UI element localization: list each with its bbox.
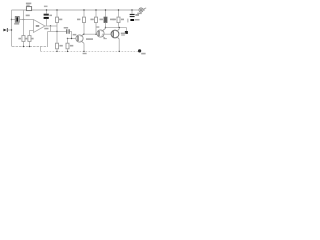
node R2 ground — [23, 46, 24, 47]
wire R3 to inverting input — [30, 31, 34, 36]
node C6 rail — [131, 9, 132, 10]
label earphone — [121, 33, 126, 35]
label R2 value — [25, 38, 27, 40]
transistor T1 collector lead — [81, 34, 84, 37]
wire R2 to ground — [23, 41, 25, 46]
label R5 — [77, 19, 80, 21]
node mic tap — [11, 19, 12, 20]
label R7 value — [110, 19, 115, 21]
transistor T3 base bar — [112, 31, 114, 37]
resistor R8 body — [117, 17, 120, 22]
capacitor C2 plate upper — [44, 14, 49, 16]
resistor bias body — [66, 43, 69, 49]
wire R6 down — [95, 23, 97, 35]
resistor R8 chain — [118, 10, 120, 17]
wire R5 down to collector node — [83, 23, 85, 35]
label MIC below C1 — [14, 23, 19, 25]
label R2 — [18, 38, 21, 40]
node T1 emitter ground — [83, 51, 84, 52]
node stage1 — [56, 31, 57, 32]
label under T1 emitter ground — [83, 53, 87, 54]
wire R8 down — [118, 23, 120, 27]
input arrow — [3, 29, 6, 32]
wire arrow stub — [7, 29, 11, 31]
wire R4 down — [56, 23, 58, 32]
resistor R5 body — [83, 17, 86, 22]
wire T1 emitter to ground — [83, 43, 85, 51]
node R4 rail — [56, 9, 57, 10]
node T3 emitter ground — [119, 51, 120, 52]
wire C2 bottom lead — [46, 19, 48, 26]
label battery left tiny — [127, 19, 128, 23]
node T2 collector — [105, 27, 106, 28]
ground tick T2 emitter — [103, 38, 106, 40]
wire node down — [56, 32, 58, 44]
node R5 rail — [83, 9, 84, 10]
ground rail lower segment — [41, 50, 139, 52]
node R6 rail — [95, 9, 96, 10]
ground rail left segment — [12, 46, 48, 48]
wire C5 ground — [56, 49, 58, 52]
resistor R4 chain — [56, 10, 58, 17]
transistor T1 emitter lead — [81, 41, 84, 44]
wire output branch down — [50, 26, 52, 32]
wire earphone drop — [126, 28, 128, 32]
capacitor C3 coupling plates — [67, 29, 69, 33]
node arrow junction — [11, 29, 12, 30]
node C5 ground — [56, 51, 57, 52]
switch S1 lever — [143, 8, 146, 9]
label battery 9V — [135, 14, 139, 16]
label T2 — [96, 26, 99, 28]
label T1 type — [86, 38, 93, 40]
resistor R4 body — [56, 17, 59, 22]
wire top rail right stub after switch — [143, 9, 145, 11]
node C2 rail — [46, 9, 47, 10]
battery plate long 2 — [130, 16, 135, 17]
transistor T1 base bar — [77, 36, 79, 41]
electret microphone MIC1 body — [14, 16, 16, 18]
capacitor C2 plate lower — [44, 17, 49, 19]
wire T3 collector up — [118, 28, 120, 30]
wire T2 emitter bus to T3 base — [102, 33, 111, 35]
op-amp A1 — [34, 20, 46, 33]
label C2 value — [49, 15, 52, 17]
wire interstage — [84, 33, 97, 35]
wire collector link — [106, 27, 127, 29]
transistor T2 collector lead — [102, 28, 106, 31]
transistor T3 collector lead — [117, 29, 120, 31]
node cap corner — [71, 38, 72, 39]
wire mic left lead — [12, 19, 16, 21]
label R3 value — [31, 38, 33, 40]
node output branch — [50, 25, 51, 26]
capacitor C1 dark plate — [16, 17, 18, 21]
node R8 rail — [118, 9, 119, 10]
wire bias resistor lead — [67, 39, 69, 44]
wire R3 to ground — [29, 41, 31, 46]
label R8 value — [121, 19, 124, 21]
label bias resistor value — [70, 45, 73, 47]
transistor T2 base bar — [98, 31, 100, 36]
wire R7 down — [105, 23, 107, 28]
label C2 — [44, 6, 48, 8]
label near output — [44, 28, 48, 30]
switch S1 contact — [140, 9, 142, 11]
label 0V — [14, 3, 145, 55]
label R8 — [113, 19, 116, 21]
label R6 — [90, 19, 93, 21]
transistor T2 — [97, 30, 104, 37]
label battery value — [135, 19, 140, 21]
transistor T1 — [76, 35, 83, 42]
wire T1 base — [68, 38, 76, 40]
wire left vertical bus — [11, 10, 13, 47]
node R3 ground — [29, 46, 30, 47]
resistor R7 body — [104, 17, 107, 22]
switch S1 — [139, 8, 143, 12]
wire top supply rail — [12, 9, 140, 11]
wire mic signal — [19, 19, 33, 21]
resistor R3 — [28, 36, 31, 42]
node T1 collector — [83, 34, 84, 35]
label R4 value — [59, 19, 62, 21]
capacitor C5 body — [56, 43, 59, 49]
node T3 collector — [119, 27, 120, 28]
wire feedback bus — [48, 31, 67, 33]
transistor T3 emitter lead — [117, 37, 120, 39]
wire bias vertical — [23, 10, 25, 36]
transistor T3 — [111, 30, 119, 38]
node R7 rail — [105, 9, 106, 10]
node base bias — [67, 38, 68, 39]
wire ground jog — [40, 47, 42, 52]
wire C3 right lead — [70, 32, 72, 39]
capacitor C6 battery decoupling lead — [131, 10, 133, 14]
resistor R1 series in rail — [26, 7, 31, 11]
label S1 — [137, 13, 141, 15]
wire bus to ground — [47, 32, 49, 47]
node signal R bias — [23, 19, 24, 20]
label C3 — [64, 27, 68, 29]
battery plate long — [130, 14, 135, 15]
label 0V — [141, 53, 145, 55]
earphone — [125, 31, 128, 34]
resistor R5 chain — [83, 10, 85, 17]
resistor R2 — [22, 36, 25, 42]
label R7 — [100, 19, 103, 21]
capacitor C2 rail decoupling top lead — [46, 10, 48, 14]
label C3 value — [73, 34, 77, 36]
resistor R6 chain — [95, 10, 97, 17]
wire T3 emitter down — [118, 39, 120, 52]
input arrow bar — [6, 28, 8, 32]
node divider — [95, 34, 96, 35]
transistor T2 emitter lead — [102, 36, 105, 39]
node bias ground — [67, 51, 68, 52]
wire bias resistor ground — [67, 49, 69, 52]
label C5 value — [59, 45, 62, 47]
battery plate short thick — [130, 19, 134, 21]
wire A1 output — [45, 25, 57, 27]
resistor R6 body — [95, 17, 98, 22]
resistor R7 chain — [105, 10, 107, 17]
terminal ground end — [138, 49, 141, 52]
label R1 — [26, 3, 31, 5]
label C1 — [26, 15, 30, 17]
label A1 — [36, 25, 39, 27]
capacitor C1 electrolytic body — [15, 17, 19, 23]
